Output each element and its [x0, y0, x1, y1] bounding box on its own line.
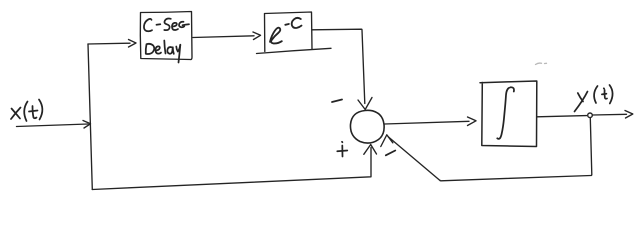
minus sign (feedback input of summer)	[386, 151, 396, 156]
wire: vertical branch line	[88, 44, 92, 190]
wire: branch to delay block arrow	[88, 42, 130, 45]
block: e^-C bottom edge overshoot	[257, 48, 332, 53]
wire: feedback drop from node	[440, 118, 592, 181]
input label x(t)	[11, 100, 42, 122]
output label y(t)	[575, 85, 613, 112]
minus sign (top input of summer)	[332, 100, 342, 103]
wire: feedback diagonal into summer	[389, 137, 441, 181]
wire: summer to integrator arrow	[385, 121, 470, 124]
summing junction circle	[350, 110, 384, 143]
wire: bottom feedforward from branch	[92, 148, 371, 190]
label integral sign	[497, 87, 514, 139]
label C-Sec	[144, 19, 189, 32]
wire: delay to exp block arrow	[193, 36, 254, 38]
block: integrator box	[480, 81, 537, 147]
node: output pickoff	[588, 113, 593, 118]
block: e^-C box	[265, 12, 313, 52]
label Delay	[146, 41, 181, 63]
label e^-C	[270, 18, 302, 44]
wire: input arrow into branch node	[17, 124, 89, 127]
block: C-sec delay box	[140, 12, 192, 60]
wire: node to output arrow	[593, 113, 627, 116]
plus sign (bottom-left input of summer)	[337, 142, 347, 157]
faint scan smudge near integrator top	[536, 63, 547, 64]
wire: integrator to output node	[537, 116, 587, 117]
wire: exp block to summer (right then down)	[312, 29, 365, 103]
